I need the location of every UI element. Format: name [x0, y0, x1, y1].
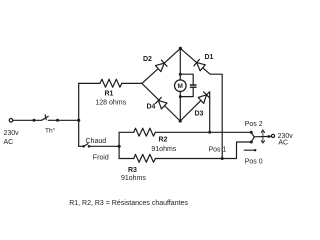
- terminal left 230v AC: [9, 119, 13, 123]
- motor M: [175, 80, 187, 92]
- svg-text:91ohms: 91ohms: [151, 146, 176, 153]
- node bottom vertex: [179, 119, 182, 122]
- selector movement arrow: [261, 130, 265, 143]
- svg-text:Pos 1: Pos 1: [209, 146, 227, 153]
- wire R3 to Pos 1 contact: [155, 142, 251, 159]
- capacitor C parallel with motor: [180, 74, 196, 96]
- wire motor branch bottom: [179, 92, 181, 122]
- svg-text:91ohms: 91ohms: [121, 175, 146, 182]
- wire motor branch top: [179, 48, 181, 80]
- svg-text:R3: R3: [128, 167, 137, 174]
- svg-text:230v: 230v: [4, 130, 20, 137]
- diode D4: [156, 97, 168, 109]
- svg-text:AC: AC: [278, 140, 288, 147]
- wire node B bracket to R2 and R3: [118, 132, 120, 158]
- svg-text:Chaud: Chaud: [86, 138, 107, 145]
- node Pos 1 contact: [250, 141, 253, 144]
- Pos 0 dead contact stub: [244, 149, 255, 151]
- node motor bottom junction: [179, 95, 182, 98]
- node D3 to R2 line junction: [208, 131, 211, 134]
- node Pos 2 contact: [250, 131, 253, 134]
- thermostat switch Th: [33, 119, 36, 122]
- switch Chaud/Froid: [82, 145, 85, 148]
- node top vertex: [179, 47, 182, 50]
- wire node A down corner to Chaud switch: [79, 145, 83, 147]
- diode D3: [198, 92, 209, 104]
- svg-text:Th°: Th°: [45, 126, 56, 134]
- svg-text:D4: D4: [147, 104, 156, 111]
- wire from left terminal to Th switch: [13, 119, 42, 121]
- wire selector pivot to right terminal: [254, 135, 271, 137]
- resistor R3 zigzag: [134, 154, 156, 162]
- svg-text:Pos 0: Pos 0: [245, 158, 263, 165]
- svg-text:128 ohms: 128 ohms: [95, 99, 126, 106]
- svg-text:R1, R2, R3 = Résistances chauf: R1, R2, R3 = Résistances chauffantes: [69, 200, 188, 207]
- svg-text:D1: D1: [205, 54, 214, 61]
- svg-text:R2: R2: [159, 136, 168, 143]
- svg-text:AC: AC: [4, 139, 14, 146]
- terminal right 230v AC: [271, 134, 274, 137]
- wire R1 left lead: [79, 82, 100, 84]
- svg-text:M: M: [178, 83, 183, 90]
- wire bridge edge D4 (bottom vertex to left vertex): [142, 83, 180, 121]
- svg-text:Pos 2: Pos 2: [245, 121, 263, 128]
- wire bridge edge D3 (bottom vertex up-right then down to Pos2 line): [180, 92, 210, 133]
- svg-text:D3: D3: [195, 111, 204, 118]
- node before right terminal: [267, 135, 270, 138]
- wire bridge edge D2 (left vertex to top vertex): [142, 48, 181, 83]
- svg-text:Froid: Froid: [93, 155, 109, 162]
- diode D2: [156, 60, 168, 72]
- node B junction: [118, 145, 121, 148]
- selector blades: [251, 132, 254, 137]
- wire vertical node A up to R1 line and down to Chaud switch: [78, 83, 80, 146]
- wire R3 left lead: [119, 158, 134, 160]
- resistor R2 zigzag: [134, 128, 156, 136]
- node motor top junction: [179, 73, 182, 76]
- wire R1 to bridge left vertex: [122, 82, 142, 84]
- wire R2 to Pos 2 contact: [155, 131, 251, 133]
- wire Chaud switch to node B: [90, 145, 120, 147]
- svg-text:R1: R1: [105, 91, 114, 98]
- resistor R1 zigzag: [100, 79, 122, 87]
- wire bridge edge D1 (top vertex to corner, then to Pos1 line): [180, 48, 222, 158]
- svg-text:D2: D2: [143, 56, 152, 63]
- node D1 to R3 line junction: [221, 157, 224, 160]
- node A junction: [77, 119, 80, 122]
- wire Th switch to node A: [48, 119, 78, 121]
- wire R2 left lead: [119, 131, 134, 133]
- diode D1: [194, 59, 205, 70]
